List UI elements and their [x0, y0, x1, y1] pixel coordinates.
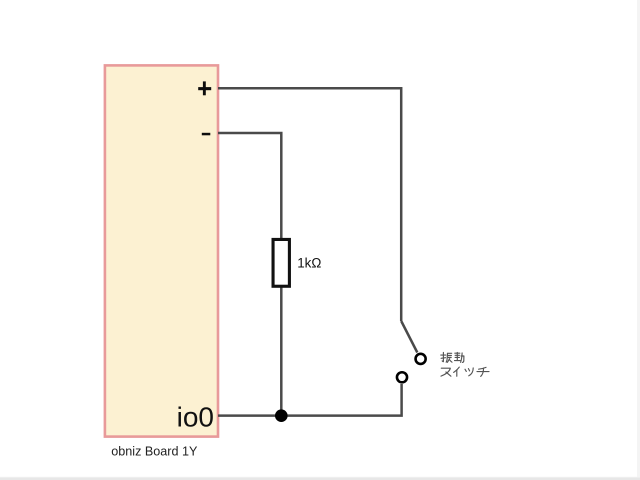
svg-text:1kΩ: 1kΩ [297, 256, 321, 271]
svg-text:obniz Board 1Y: obniz Board 1Y [111, 445, 198, 459]
svg-text:io0: io0 [177, 401, 214, 432]
